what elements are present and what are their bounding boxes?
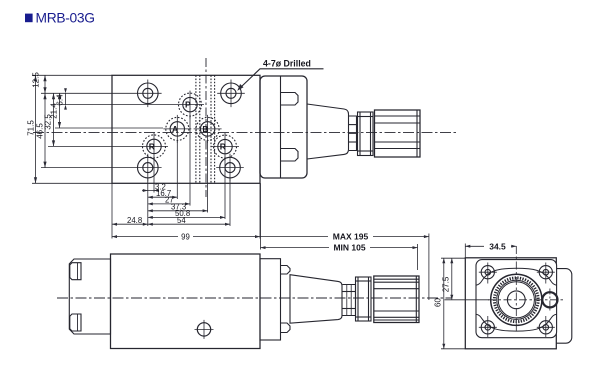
dim 21.4 line: [58, 93, 61, 128]
dim 50.8: [148, 209, 225, 219]
dim 27: [148, 196, 190, 206]
side view plate: [260, 259, 281, 340]
side view stem: [342, 285, 355, 316]
side small circle: [542, 292, 557, 307]
cap bolt head bottom: [70, 314, 81, 331]
lock ring: [358, 112, 374, 156]
dim 6.4 line: [64, 88, 67, 109]
MAX extension vertical: [428, 234, 430, 301]
bolt hole top-right: [217, 80, 245, 108]
knob (top view): [375, 110, 421, 157]
svg-text:60: 60: [434, 298, 443, 307]
cover bottom tab: [281, 149, 299, 162]
dim 16.7: [148, 189, 178, 199]
dim 27.5: [442, 258, 490, 300]
bolt hole bottom-right: [216, 154, 244, 182]
end view bolt hole BL: [479, 316, 497, 337]
dim 12.5 / 46.5 line: [43, 75, 46, 167]
top view main block: [112, 75, 260, 183]
flange lower dome arc: [476, 314, 557, 331]
body behind (rounded): [540, 269, 572, 344]
stem bellows: [349, 116, 357, 151]
port B: [194, 115, 222, 143]
svg-text:24.8: 24.8: [127, 216, 142, 225]
dim MIN 105: [261, 242, 418, 252]
cover top tab: [281, 93, 299, 106]
side view main block: [111, 254, 261, 349]
dim 71.5 line: [34, 75, 37, 183]
port A: [163, 115, 191, 143]
side view knob: [374, 276, 419, 323]
left extension lines: [32, 75, 176, 183]
end view bolt hole TR: [537, 263, 555, 284]
MIN extension vertical: [417, 244, 419, 270]
side view cone: [290, 275, 342, 324]
svg-text:27.5: 27.5: [442, 276, 451, 292]
dim 54 and 24.8: [112, 216, 230, 226]
vertical center dash-dot at B column: [205, 58, 207, 197]
knurl ring: [494, 278, 538, 322]
svg-text:6.4: 6.4: [56, 94, 65, 106]
cone frustum: [307, 104, 349, 159]
bolt hole bottom-left: [134, 154, 162, 182]
end view bolt hole TL: [479, 263, 497, 284]
side view bottom tab: [281, 323, 291, 333]
flange outline: [476, 260, 557, 338]
port R right: [211, 133, 239, 161]
svg-text:MRB-03G: MRB-03G: [36, 11, 95, 26]
side view axis dash-dot: [57, 297, 452, 299]
callout underline and leader: [241, 69, 324, 88]
inner circles: [497, 280, 536, 319]
svg-text:R: R: [149, 141, 155, 151]
side view top tab: [281, 266, 291, 275]
dim 32.5 line: [52, 93, 55, 146]
dim 37.3: [148, 203, 208, 213]
dim 3.2: [142, 182, 166, 192]
left dim texts (rotated): [27, 72, 65, 139]
port R left: [140, 132, 168, 160]
flange upper dome arc: [476, 268, 557, 285]
cover inner vertical line: [280, 76, 282, 178]
svg-text:34.5: 34.5: [489, 241, 506, 251]
side view lock ring: [356, 277, 372, 321]
title block square: [25, 14, 33, 23]
dim 34.5: [465, 241, 516, 258]
svg-text:MAX 195: MAX 195: [333, 231, 369, 241]
dim 60: [434, 258, 466, 349]
dim 99 and MAX 195: [112, 231, 429, 241]
svg-text:MIN 105: MIN 105: [333, 242, 365, 252]
side view end cap: [69, 259, 110, 334]
port P: [176, 91, 204, 119]
horizontal axis dash-dot (top view): [33, 132, 456, 134]
svg-text:12.5: 12.5: [32, 72, 41, 88]
svg-text:71.5: 71.5: [27, 120, 36, 136]
svg-text:54: 54: [177, 216, 186, 225]
subplate square: [465, 258, 556, 349]
cap bolt head top: [70, 263, 81, 280]
knob crosshairs: [515, 246, 517, 332]
bolt hole top-left: [134, 80, 162, 108]
svg-text:A: A: [172, 124, 178, 134]
bottom extension verticals from ports: [112, 117, 261, 250]
hidden bore dotted lines: [195, 75, 197, 183]
svg-text:4-7ø Drilled: 4-7ø Drilled: [263, 59, 311, 69]
side port circle: [197, 323, 210, 336]
svg-text:P: P: [185, 100, 191, 110]
svg-text:99: 99: [181, 233, 190, 242]
knob outer circle: [491, 274, 542, 325]
svg-text:B: B: [202, 124, 208, 134]
top view cover rounded rect: [260, 76, 307, 178]
svg-text:R: R: [220, 142, 226, 152]
end view bolt hole BR: [537, 316, 555, 337]
